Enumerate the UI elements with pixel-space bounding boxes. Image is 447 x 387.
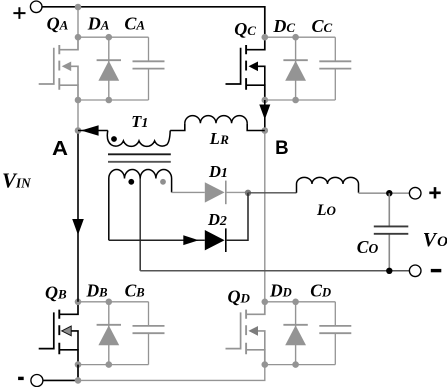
node DB bottom bbox=[106, 361, 113, 368]
node top rail junction bbox=[75, 4, 82, 11]
T1 primary polarity dot bbox=[111, 136, 117, 142]
svg-text:DA: DA bbox=[87, 14, 110, 34]
svg-text:QD: QD bbox=[228, 286, 251, 306]
wire right leg lower gray bbox=[264, 131, 266, 302]
svg-text:DB: DB bbox=[86, 280, 108, 300]
node DA bottom bbox=[106, 97, 113, 104]
svg-text:VO: VO bbox=[423, 229, 447, 251]
input terminal bottom bbox=[31, 375, 43, 387]
svg-text:QC: QC bbox=[234, 19, 256, 39]
node QA drain bbox=[75, 34, 82, 41]
wire Lo to + output bbox=[359, 192, 410, 194]
wire secondary to D1 bbox=[172, 191, 205, 193]
node Lo Co junction bbox=[386, 190, 392, 196]
transformer T1 secondary winding 1 bbox=[109, 170, 140, 241]
node DC bottom bbox=[292, 97, 299, 104]
svg-text:CO: CO bbox=[357, 237, 379, 257]
plus sign VIN top bbox=[13, 7, 25, 19]
wire junction to Lo bbox=[248, 192, 297, 194]
T1 secondary dot 1 bbox=[128, 179, 134, 185]
svg-text:CC: CC bbox=[312, 16, 333, 36]
minus sign VIN bottom bbox=[18, 377, 24, 380]
arrow current down left leg bbox=[72, 219, 84, 235]
wire secondary to D2 bbox=[109, 239, 205, 241]
transistor QD body arrow overlay bbox=[249, 326, 259, 336]
inductor LR bbox=[185, 116, 247, 124]
node QB rail bbox=[75, 377, 82, 384]
diode D1 bbox=[205, 182, 225, 202]
svg-text:A: A bbox=[52, 137, 68, 160]
transformer T1 primary winding bbox=[107, 131, 170, 147]
transistor QB bbox=[39, 302, 78, 365]
diode DB bbox=[97, 302, 121, 365]
inductor Lo bbox=[297, 177, 359, 192]
wire left leg upper gray bbox=[77, 100, 79, 131]
svg-text:D1: D1 bbox=[208, 162, 228, 181]
svg-text:LO: LO bbox=[316, 202, 336, 219]
plus sign output bbox=[429, 187, 440, 198]
capacitor CA cell lines bbox=[78, 37, 165, 100]
diode DD bbox=[283, 302, 307, 365]
svg-text:QB: QB bbox=[45, 283, 67, 303]
wire bottom rail gray bbox=[78, 365, 265, 381]
svg-text:D2: D2 bbox=[207, 210, 227, 229]
svg-text:DD: DD bbox=[269, 281, 292, 301]
wire primary to LR bbox=[170, 123, 185, 130]
transistor QC bbox=[225, 37, 264, 100]
wire node A to primary bbox=[78, 130, 108, 132]
wire center tap down bbox=[139, 179, 141, 271]
transistor QB body arrow overlay bbox=[62, 326, 71, 336]
node QD drain bbox=[262, 299, 269, 306]
capacitor CD cell lines bbox=[265, 302, 352, 365]
svg-text:CA: CA bbox=[124, 14, 145, 34]
T1 secondary dot 2 bbox=[160, 179, 166, 185]
node QB source bbox=[75, 361, 82, 368]
svg-text:LR: LR bbox=[209, 129, 229, 148]
node DD bottom bbox=[292, 361, 299, 368]
output terminal plus bbox=[409, 187, 421, 199]
transistor QA bbox=[39, 37, 78, 100]
capacitor CC cell lines bbox=[265, 37, 352, 100]
svg-text:T1: T1 bbox=[131, 112, 148, 131]
svg-text:CB: CB bbox=[125, 280, 145, 300]
diode DA bbox=[97, 37, 121, 100]
svg-text:QA: QA bbox=[47, 13, 69, 33]
minus sign output bbox=[431, 269, 442, 272]
wire left leg lower black bbox=[77, 131, 79, 302]
wire LR to node B bbox=[247, 123, 265, 130]
node DA top bbox=[106, 34, 113, 41]
arrow current into D2 bbox=[183, 235, 198, 245]
input terminal top bbox=[30, 1, 42, 13]
wire QB source to rail bbox=[77, 365, 79, 381]
node QC source bbox=[262, 97, 269, 104]
wire D1 to junction bbox=[226, 191, 248, 193]
output terminal minus bbox=[409, 265, 421, 277]
node QB drain bbox=[75, 299, 82, 306]
arrow current into A bbox=[81, 125, 99, 135]
node QD source bbox=[262, 361, 269, 368]
transistor QD bbox=[225, 302, 264, 365]
node A bbox=[75, 127, 82, 134]
diode D2 bbox=[205, 230, 225, 250]
node DD top bbox=[292, 299, 299, 306]
transformer T1 secondary winding 2 bbox=[140, 170, 171, 193]
svg-text:VIN: VIN bbox=[2, 169, 31, 193]
node DB top bbox=[106, 299, 113, 306]
wire top rail bbox=[42, 7, 265, 37]
wire bottom rail left black bbox=[43, 379, 78, 381]
svg-text:CD: CD bbox=[310, 281, 331, 301]
node Co bottom bbox=[386, 268, 392, 274]
arrow current down right leg bbox=[259, 105, 270, 120]
transformer T1 core bbox=[108, 153, 171, 155]
node QC drain bbox=[262, 34, 269, 41]
wire right leg upper black bbox=[264, 100, 266, 131]
capacitor Co bbox=[388, 193, 390, 271]
svg-text:DC: DC bbox=[272, 16, 295, 36]
wire D2 to junction bbox=[226, 193, 248, 240]
capacitor CB cell lines bbox=[78, 302, 165, 365]
node QA source bbox=[75, 97, 82, 104]
node DC top bbox=[292, 34, 299, 41]
diode DC bbox=[283, 37, 307, 100]
svg-text:B: B bbox=[275, 137, 289, 159]
node D1 D2 junction bbox=[245, 190, 251, 196]
wire stub to QA cell bbox=[77, 7, 79, 37]
wire output return rail bbox=[140, 270, 409, 272]
node B bbox=[262, 127, 269, 134]
